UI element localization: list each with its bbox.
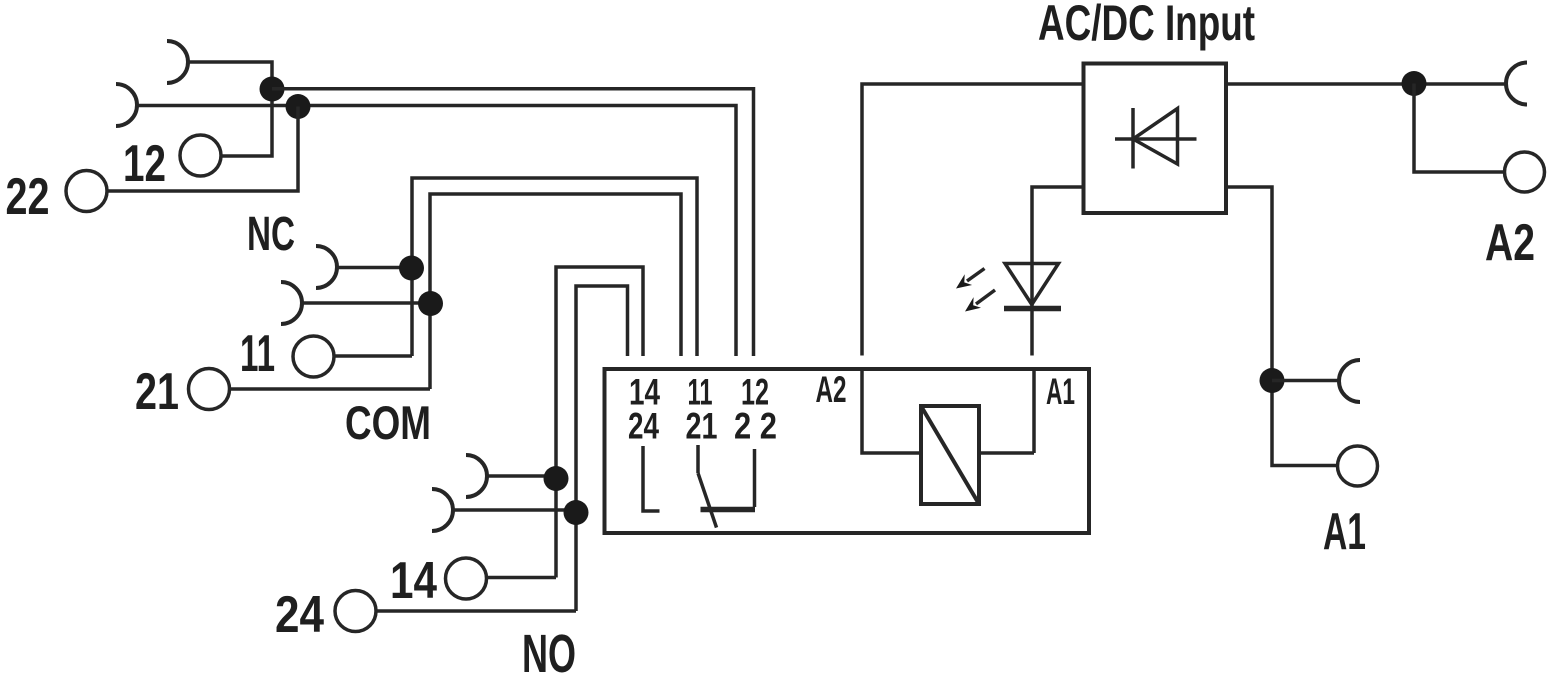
coil diagonal [921, 406, 979, 504]
wire node11 riser to relay pin 11 [412, 178, 697, 356]
socket arc for contact 21 [281, 282, 302, 324]
svg-text:A1: A1 [1046, 371, 1075, 412]
contact 22 stem [753, 449, 757, 507]
svg-text:A2: A2 [816, 369, 847, 410]
wire bridge DC- to LED [1032, 187, 1084, 356]
junction node 21 [418, 291, 443, 316]
LED D1 triangle [1005, 264, 1059, 305]
svg-text:AC/DC Input: AC/DC Input [1038, 0, 1255, 51]
wire node14 riser to relay pin 14 [556, 267, 643, 578]
terminal circle 21 [189, 369, 230, 410]
LED cathode bar [1004, 306, 1061, 312]
wire nodeA1 to socket arc A1 [1272, 379, 1339, 383]
bridge rectifier box [1084, 64, 1227, 214]
svg-text:A1: A1 [1323, 503, 1366, 561]
LED light arrow 2 shaft [976, 290, 995, 304]
junction node A1 [1260, 368, 1285, 393]
terminal circle A2 [1505, 152, 1545, 192]
wire arc11 to node 11 [336, 266, 412, 270]
socket arc for contact 11 [316, 246, 337, 288]
wire node12 to relay pin 12 [272, 89, 754, 356]
svg-text:24: 24 [628, 406, 659, 447]
svg-text:22: 22 [6, 168, 50, 226]
terminal circle 11 [293, 336, 334, 377]
LED light arrow 2 head [965, 297, 981, 311]
wire nodeA2 down to terminal circle A2 [1414, 84, 1504, 173]
bridge diode triangle [1133, 109, 1178, 165]
terminal circle 12 [180, 135, 221, 176]
coil to pin A1 internal wire [979, 369, 1034, 453]
svg-text:NC: NC [247, 208, 295, 261]
junction node 22 [286, 94, 311, 119]
svg-text:21: 21 [686, 406, 718, 447]
wire node21 riser to relay pin 21 [430, 194, 681, 389]
wire node24 riser to relay pin 24 [576, 286, 628, 611]
terminal circle 22 [66, 171, 107, 212]
coil pin A2 internal wire [862, 369, 921, 453]
svg-text:12: 12 [123, 135, 166, 193]
wire terminal14 to riser [487, 576, 557, 580]
terminal circle A1 [1338, 446, 1378, 486]
junction node 11 [399, 256, 424, 281]
wire arc12 to corner down to terminal 12 [187, 62, 272, 156]
socket arc A1 [1339, 360, 1360, 402]
junction node 12 [260, 77, 285, 102]
wire arc14 to node 14 [486, 474, 556, 478]
socket arc for contact 22 [116, 84, 137, 126]
wire arc21 to node 21 [301, 301, 430, 305]
wire bridge DC+ to terminal A1 [1226, 187, 1337, 466]
junction node 24 [564, 500, 589, 525]
svg-text:NO: NO [522, 624, 576, 680]
terminal circle 14 [446, 558, 487, 599]
terminal circle 24 [335, 591, 376, 632]
junction node A2 [1402, 71, 1427, 96]
wire terminal24 to riser [377, 609, 577, 613]
contact 24 fixed throw [643, 446, 660, 511]
contact 22 fixed bar [701, 507, 756, 513]
wire arc24 to node 24 [452, 508, 576, 512]
wire arc22 to relay pin 22 [136, 106, 736, 357]
wire terminal11 to riser [335, 354, 413, 358]
svg-text:14: 14 [390, 552, 437, 610]
relay coil K1 [921, 406, 979, 504]
wire terminal21 to riser [230, 387, 430, 391]
wire bridge AC2 to terminal A2 [1226, 82, 1506, 86]
wire node22 down to terminal 22 [107, 107, 298, 192]
svg-text:11: 11 [240, 325, 275, 383]
svg-text:2 2: 2 2 [734, 406, 777, 447]
socket arc for contact 24 [432, 489, 453, 531]
svg-text:24: 24 [275, 586, 324, 644]
bridge diode axis line [1115, 137, 1197, 141]
socket arc A2 [1506, 63, 1527, 105]
LED light arrow 1 shaft [967, 269, 985, 282]
bridge diode cathode bar [1131, 108, 1135, 169]
contact 21 moving arm [698, 473, 717, 528]
svg-text:A2: A2 [1485, 214, 1535, 272]
relay module box [605, 369, 1090, 533]
svg-text:21: 21 [135, 363, 179, 421]
LED light arrow 1 head [956, 274, 972, 288]
socket arc for contact 12 [167, 41, 188, 83]
junction node 14 [544, 466, 569, 491]
contact 21 common stem [696, 445, 700, 473]
socket arc for contact 14 [466, 455, 487, 497]
svg-text:COM: COM [345, 396, 431, 449]
wire bridge AC1 to coil pin A2 [862, 84, 1084, 356]
